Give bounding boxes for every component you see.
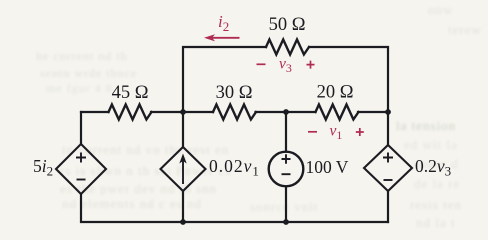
svg-text:v1: v1	[330, 123, 343, 143]
svg-text:0.2v3: 0.2v3	[415, 156, 451, 179]
svg-text:5i2: 5i2	[33, 156, 53, 179]
svg-text:i2: i2	[218, 12, 229, 34]
svg-text:20 Ω: 20 Ω	[317, 83, 354, 103]
svg-text:0.02v1: 0.02v1	[209, 156, 260, 179]
svg-text:30 Ω: 30 Ω	[216, 83, 253, 103]
svg-text:v3: v3	[279, 56, 292, 76]
svg-text:100 V: 100 V	[306, 157, 349, 177]
svg-text:45 Ω: 45 Ω	[112, 83, 149, 103]
svg-text:50 Ω: 50 Ω	[269, 15, 306, 35]
